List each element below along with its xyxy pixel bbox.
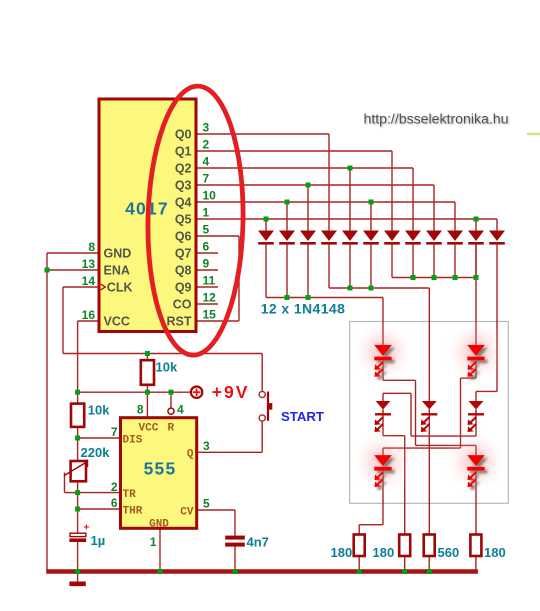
svg-text:1: 1 [203,206,210,220]
svg-text:220k: 220k [81,445,111,460]
svg-text:560: 560 [438,545,460,560]
svg-text:180: 180 [373,545,395,560]
svg-text:GND: GND [104,246,132,260]
svg-text:6: 6 [203,240,210,254]
svg-text:THR: THR [123,505,143,517]
svg-text:START: START [281,409,324,424]
svg-text:+9V: +9V [212,382,250,402]
svg-text:2: 2 [203,138,210,152]
svg-text:8: 8 [88,240,95,254]
svg-text:TR: TR [123,489,137,501]
svg-text:15: 15 [203,308,217,322]
svg-text:5: 5 [203,223,210,237]
svg-text:http://bsselektronika.hu: http://bsselektronika.hu [364,110,509,126]
svg-text:4n7: 4n7 [247,535,269,550]
svg-text:Q1: Q1 [175,144,192,158]
svg-text:2: 2 [111,480,118,494]
svg-text:10k: 10k [88,403,110,418]
svg-text:Q4: Q4 [175,195,192,209]
svg-text:4: 4 [177,403,184,417]
svg-text:Q: Q [187,449,194,461]
svg-text:5: 5 [203,497,210,511]
svg-text:16: 16 [82,308,96,322]
svg-text:6: 6 [111,496,118,510]
svg-text:14: 14 [82,274,96,288]
svg-text:Q5: Q5 [175,212,192,226]
svg-text:Q3: Q3 [175,178,192,192]
svg-text:12 x 1N4148: 12 x 1N4148 [261,301,346,317]
svg-text:11: 11 [203,274,216,288]
svg-text:12: 12 [203,291,217,305]
svg-text:13: 13 [82,257,96,271]
svg-text:GND: GND [149,519,169,531]
svg-text:180: 180 [484,545,506,560]
svg-text:CLK: CLK [107,280,133,294]
svg-text:1µ: 1µ [91,533,106,548]
svg-text:8: 8 [137,403,144,417]
svg-text:+: + [84,523,90,534]
svg-text:1: 1 [150,535,157,549]
svg-text:3: 3 [203,439,210,453]
svg-text:DIS: DIS [123,434,143,446]
svg-text:CV: CV [180,506,194,518]
svg-text:Q0: Q0 [175,127,192,141]
svg-text:4: 4 [203,155,210,169]
svg-text:CO: CO [173,297,192,311]
svg-text:180: 180 [331,545,353,560]
svg-text:VCC: VCC [139,423,159,435]
svg-text:RST: RST [167,314,192,328]
svg-text:9: 9 [203,257,210,271]
svg-text:7: 7 [111,425,118,439]
svg-text:R: R [168,423,175,435]
svg-text:Q8: Q8 [175,263,192,277]
svg-text:555: 555 [144,459,177,479]
svg-text:ENA: ENA [104,263,130,277]
svg-text:Q2: Q2 [175,161,192,175]
svg-text:7: 7 [203,172,210,186]
svg-text:Q6: Q6 [175,229,192,243]
svg-text:10: 10 [203,189,217,203]
svg-text:3: 3 [203,121,210,135]
svg-text:Q7: Q7 [175,246,192,260]
svg-text:VCC: VCC [104,314,130,328]
svg-text:Q9: Q9 [175,280,192,294]
svg-text:10k: 10k [156,360,178,375]
